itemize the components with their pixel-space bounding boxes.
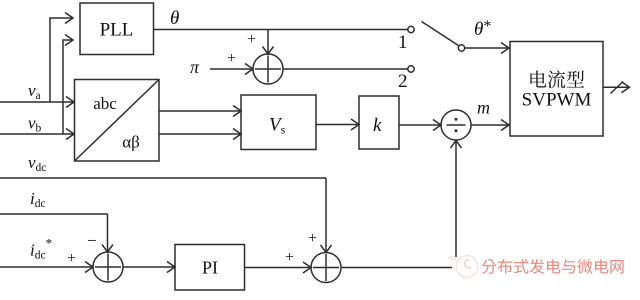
switch pole — [458, 45, 464, 51]
label PI — [202, 258, 218, 278]
svg-text:−: − — [87, 231, 97, 250]
wire summer 1 to PI — [123, 262, 175, 273]
label dianliuxing — [530, 70, 584, 88]
label plus left of summer 1 — [67, 250, 76, 267]
svg-text:1: 1 — [398, 32, 408, 53]
label SVPWM — [522, 90, 592, 111]
wire abc output alpha to Vs — [159, 106, 241, 117]
block Vs — [241, 95, 316, 150]
label theta — [170, 8, 179, 29]
label idc — [30, 189, 46, 210]
label PLL — [100, 20, 134, 41]
label m — [477, 98, 490, 118]
wire va input — [0, 97, 74, 108]
label plus top of summer 2 — [308, 230, 317, 247]
svg-text:+: + — [227, 50, 236, 67]
label 2 — [398, 71, 408, 92]
block k — [359, 96, 399, 149]
label alphabeta — [122, 133, 140, 152]
wire divider output to SVPWM — [471, 120, 509, 131]
svg-text:SVPWM: SVPWM — [522, 90, 592, 111]
block abc-alphabeta transform — [75, 80, 160, 162]
wire idc drop into summer 1 — [102, 214, 113, 252]
label vdc — [28, 153, 46, 174]
wire k to divider — [399, 120, 441, 131]
summer A circle theta+pi — [253, 54, 283, 84]
wire idc input — [0, 213, 108, 215]
label plus left of summer A — [227, 50, 236, 67]
switch contact 2 — [408, 66, 414, 72]
svg-text:k: k — [373, 115, 382, 136]
wire pi input — [210, 64, 253, 75]
wire va branch to PLL input 1 — [50, 13, 73, 103]
wire divider bottom input vertical — [451, 141, 462, 258]
wire summer A output to switch contact 2 — [283, 68, 408, 70]
svg-text:+: + — [67, 250, 76, 267]
wire vb input — [0, 129, 74, 140]
svg-text:+: + — [308, 230, 317, 247]
wire vdc drop into summer 2 — [321, 178, 332, 253]
label pi — [190, 57, 200, 77]
label idc-star — [30, 236, 52, 262]
label Vs — [269, 115, 286, 137]
svg-text:abc: abc — [93, 94, 117, 113]
label plus top of summer A — [247, 31, 256, 48]
block PI — [175, 245, 245, 291]
wire abc output beta to Vs — [159, 129, 241, 140]
wire theta from PLL to switch contact 1 — [154, 29, 408, 31]
switch arm — [422, 22, 459, 46]
wire PI to summer 2 — [245, 262, 312, 273]
svg-text:PI: PI — [202, 258, 218, 278]
label va — [28, 81, 41, 102]
watermark logo — [448, 256, 478, 278]
label abc — [93, 94, 117, 113]
wire idc-star input — [0, 262, 93, 273]
svg-text:2: 2 — [398, 71, 408, 92]
watermark text fenbushi fadian yu weidianwang — [482, 259, 624, 274]
divider dots — [455, 118, 458, 132]
wire Vs to k — [316, 119, 359, 130]
svg-text:+: + — [247, 31, 256, 48]
svg-text:π: π — [190, 57, 200, 77]
label minus at summer 1 — [87, 231, 97, 250]
label vb — [28, 114, 42, 135]
svg-text:θ: θ — [170, 8, 179, 29]
block PLL U1 — [80, 3, 154, 55]
wire switch pole to SVPWM — [465, 43, 509, 54]
switch contact 1 — [408, 26, 414, 32]
block SVPWM — [510, 42, 603, 137]
label k — [373, 115, 382, 136]
summer 1 circle idc — [93, 252, 123, 282]
wire theta drop into summer A — [263, 30, 274, 55]
label 1 — [398, 32, 408, 53]
svg-text:m: m — [477, 98, 490, 118]
label theta-star — [474, 18, 491, 40]
svg-text:αβ: αβ — [122, 133, 140, 152]
wire SVPWM output bus — [603, 82, 630, 93]
bus slash — [611, 82, 624, 94]
wire summer 2 output to divider — [341, 267, 452, 269]
wire vdc input — [0, 177, 326, 179]
wire vb branch to PLL input 2 — [63, 35, 73, 135]
svg-text:+: + — [285, 249, 294, 266]
summer 2 circle vdc — [311, 253, 341, 283]
svg-text:PLL: PLL — [100, 20, 134, 41]
divider circle — [441, 110, 471, 140]
label plus left of summer 2 — [285, 249, 294, 266]
